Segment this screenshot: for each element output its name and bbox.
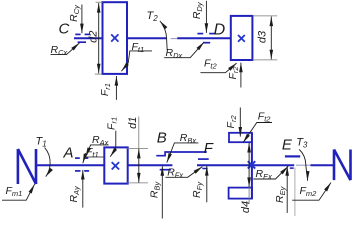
svg-text:Fr2: Fr2 xyxy=(225,115,238,129)
svg-text:Fr2: Fr2 xyxy=(227,66,240,80)
svg-text:B: B xyxy=(157,130,167,147)
svg-text:T1: T1 xyxy=(36,136,47,149)
bearing support E bars xyxy=(285,155,300,157)
reaction RFy arrow xyxy=(206,166,208,202)
coupling symbol left xyxy=(18,149,36,184)
wire shaft C to gear2 xyxy=(74,37,103,39)
svg-text:d1: d1 xyxy=(127,117,139,129)
wire faint break dash xyxy=(171,38,177,40)
svg-text:Ft2: Ft2 xyxy=(258,110,272,123)
wire shaft to gear3 xyxy=(177,37,231,39)
bearing support D xyxy=(197,34,215,43)
wire output shaft to coupling xyxy=(311,164,334,166)
gear 4 top rim xyxy=(229,133,252,142)
node x-mark gear3 center xyxy=(238,35,245,42)
svg-text:A: A xyxy=(63,145,74,162)
output shaft socket outline (step line B to F) xyxy=(156,152,207,156)
reaction RDy arrow xyxy=(205,1,207,33)
svg-text:RDy: RDy xyxy=(191,1,204,19)
force Fr1 arrow down onto pinion top xyxy=(110,131,116,157)
svg-text:E: E xyxy=(282,137,293,154)
svg-text:d3: d3 xyxy=(256,30,268,43)
label RCy xyxy=(68,4,81,22)
gear 4 bottom rim xyxy=(229,188,252,199)
gear 2 rectangle xyxy=(103,2,128,74)
wire input shaft xyxy=(36,164,104,166)
node x-mark gear2 center xyxy=(111,34,118,41)
reaction REy arrow xyxy=(286,166,288,213)
svg-text:RAy: RAy xyxy=(68,185,81,203)
dimension d3 xyxy=(252,15,277,17)
svg-text:C: C xyxy=(59,21,70,38)
bearing support B lower bar xyxy=(160,169,171,171)
svg-text:Fm2: Fm2 xyxy=(300,185,318,198)
svg-text:d4: d4 xyxy=(240,201,252,213)
force Fr2 arrow down onto gear4 rim xyxy=(239,108,241,137)
svg-text:RCy: RCy xyxy=(68,4,81,22)
svg-text:RBy: RBy xyxy=(148,180,161,198)
svg-text:Fr1: Fr1 xyxy=(106,117,119,130)
svg-text:T2: T2 xyxy=(147,10,159,23)
svg-text:F: F xyxy=(204,140,214,157)
force Fr2 arrow up at gear3 bottom xyxy=(240,63,242,88)
node x-mark pinion center xyxy=(112,162,119,169)
coupling symbol right xyxy=(334,150,351,181)
svg-text:Fr1: Fr1 xyxy=(99,83,112,96)
wire faint break xyxy=(296,164,311,166)
svg-text:Fm1: Fm1 xyxy=(6,185,23,198)
svg-text:d2: d2 xyxy=(87,31,99,43)
gear 1 rectangle (pinion d1) xyxy=(104,147,127,183)
svg-text:RFy: RFy xyxy=(191,181,204,198)
gear 4 disc xyxy=(251,133,253,199)
wire shaft gear2 to D xyxy=(127,37,167,39)
dimension d2 xyxy=(96,1,103,3)
gear 3 rectangle xyxy=(231,16,253,60)
bearing support A xyxy=(75,158,89,171)
wire output shaft xyxy=(197,164,294,166)
dimension d1 xyxy=(127,147,148,149)
svg-text:REy: REy xyxy=(274,185,287,203)
svg-text:T3: T3 xyxy=(296,137,308,150)
svg-text:D: D xyxy=(214,21,226,38)
bearing support C xyxy=(75,34,90,42)
node x-mark gear4 center xyxy=(248,161,255,168)
bearing support F bars xyxy=(198,158,209,160)
force Fr1 on gear2 (arrow up at bottom) xyxy=(115,76,117,100)
reaction RCy arrow xyxy=(81,5,83,34)
reaction RAy arrow xyxy=(82,170,84,208)
reaction RBy arrow xyxy=(161,166,163,218)
svg-text:Ft1: Ft1 xyxy=(132,41,145,54)
wire shaft pinion to B xyxy=(128,164,172,166)
svg-text:Ft2: Ft2 xyxy=(204,58,218,71)
extension line below E xyxy=(294,168,296,217)
dimension d4 xyxy=(248,143,250,187)
